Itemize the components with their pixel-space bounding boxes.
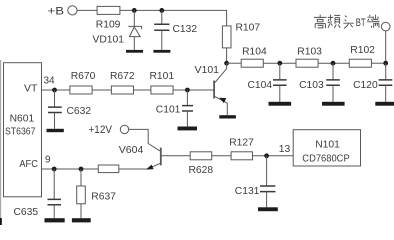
wire BT terminal down to rail — [385, 31, 387, 63]
svg-text:CD7680CP: CD7680CP — [302, 153, 350, 164]
ground C120 — [375, 102, 394, 106]
wire C104 lead top — [279, 63, 281, 80]
svg-text:V604: V604 — [119, 144, 144, 156]
svg-text:C101: C101 — [156, 105, 181, 116]
resistor R102 — [349, 59, 371, 67]
resistor R637 (vertical) — [77, 186, 86, 204]
wire C131 lead bottom — [266, 192, 268, 208]
wire C103 lead bottom — [332, 85, 334, 102]
junction dot C101 tap — [185, 88, 190, 93]
junction dot C131 tap — [264, 153, 269, 158]
svg-text:R101: R101 — [150, 71, 175, 82]
wire C635 lead top — [53, 169, 55, 199]
ground C632 — [47, 129, 64, 132]
transistor V101 emitter arrow — [219, 98, 226, 103]
svg-text:R672: R672 — [110, 71, 135, 82]
wire AFC pin9 rail — [42, 168, 99, 170]
svg-text:R107: R107 — [236, 22, 261, 33]
resistor R101 — [151, 86, 173, 94]
svg-text:VT: VT — [24, 83, 38, 95]
svg-text:V101: V101 — [195, 64, 220, 76]
wire C635 lead bottom — [53, 205, 55, 218]
capacitor C635 — [48, 199, 62, 204]
svg-text:R104: R104 — [242, 46, 267, 57]
wire R637 lead top — [80, 169, 82, 186]
wire C132 lead bottom — [161, 30, 163, 50]
wire resistor to V604 emitter — [119, 168, 147, 170]
svg-text:ST6367: ST6367 — [5, 127, 36, 138]
glyph 端 — [367, 15, 379, 28]
junction dot C635 tap — [52, 167, 57, 172]
resistor R637 series (horizontal) — [98, 165, 119, 173]
resistor R672 — [111, 86, 133, 94]
diode VD101 zener cathode bar — [128, 26, 141, 29]
ground C101 — [178, 127, 198, 131]
IC N101 box — [293, 130, 360, 166]
junction dot R107/V101 collector — [224, 61, 229, 66]
IC N601 box — [4, 63, 42, 197]
junction dot C120 tap — [383, 61, 388, 66]
glyph 频 — [328, 15, 341, 28]
wire +B to R109 — [77, 9, 97, 11]
wire C131 lead top — [266, 156, 268, 186]
svg-text:R102: R102 — [350, 45, 375, 56]
ground C132 — [153, 50, 170, 53]
svg-text:C632: C632 — [67, 106, 92, 117]
diode VD101 anode triangle — [129, 27, 140, 37]
transistor V604 base bar — [160, 148, 162, 166]
capacitor C632 — [48, 107, 62, 112]
junction dot C632 tap — [52, 88, 57, 93]
junction dot C132 tap — [159, 8, 164, 13]
wire R102 to BT node — [371, 62, 385, 64]
wire R672 to R101 — [134, 89, 151, 91]
junction dot C103 tap — [331, 61, 336, 66]
wire VD101 lead bottom — [133, 37, 135, 50]
wire C120 lead top — [385, 63, 387, 80]
label 高频头BT端 (hand-drawn glyphs) — [314, 15, 354, 29]
resistor R670 — [70, 86, 92, 94]
wire VD101 lead top — [133, 10, 135, 26]
transistor V101 base bar — [213, 81, 215, 99]
wire R637 lead bottom — [80, 204, 82, 218]
transistor V604 emitter arrow — [146, 165, 154, 170]
wire C101 lead bottom — [186, 111, 188, 127]
svg-text:C131: C131 — [235, 186, 260, 197]
wire C104 lead bottom — [279, 85, 281, 102]
svg-text:VD101: VD101 — [93, 35, 125, 46]
svg-text:34: 34 — [44, 76, 56, 87]
svg-text:+12V: +12V — [89, 124, 113, 136]
page edge line — [0, 60, 2, 225]
svg-text:C635: C635 — [14, 207, 39, 218]
svg-text:R103: R103 — [297, 46, 322, 57]
svg-text:9: 9 — [45, 155, 51, 166]
svg-text:AFC: AFC — [19, 159, 38, 170]
ground VD101 — [126, 50, 143, 53]
capacitor C131 — [260, 186, 275, 192]
wire C120 lead bottom — [385, 85, 387, 102]
terminal circle +12V — [120, 125, 128, 133]
ground C103 — [322, 102, 345, 106]
wire C632 lead bottom — [54, 113, 56, 129]
junction dot R637 tap — [79, 167, 84, 172]
svg-text:N601: N601 — [10, 114, 35, 125]
wire pin34 to R670 — [42, 89, 70, 91]
resistor R127 — [231, 152, 252, 160]
resistor R104 — [241, 59, 263, 67]
wire R109 to corner and down to R107 — [120, 10, 227, 26]
transistor V604 base wire to R628 — [162, 155, 191, 157]
wire R104 to R103 — [263, 62, 296, 64]
wire C103 lead top — [332, 63, 334, 80]
svg-text:C132: C132 — [173, 24, 198, 35]
wire rail junction to R104 — [227, 62, 242, 64]
svg-text:C104: C104 — [248, 80, 273, 91]
capacitor C120 — [379, 80, 393, 85]
ground C131 — [258, 207, 278, 211]
svg-text:R127: R127 — [229, 137, 254, 148]
wire R103 to R102 — [318, 62, 349, 64]
wire R670 to R672 — [92, 89, 111, 91]
svg-text:R637: R637 — [91, 191, 116, 202]
ground C635 — [45, 218, 65, 222]
wire C101 lead top — [186, 90, 188, 106]
glyph 高 — [314, 15, 326, 29]
transistor V604 emitter — [147, 163, 161, 169]
svg-text:C120: C120 — [353, 80, 378, 91]
resistor R107 — [222, 26, 231, 48]
wire C632 lead top — [54, 90, 56, 107]
ground C104 — [269, 102, 292, 106]
glyph 头 — [343, 16, 354, 29]
ground V101 emitter — [219, 115, 236, 118]
ground R637 — [72, 218, 91, 222]
terminal circle +B — [68, 6, 77, 15]
resistor R109 — [97, 6, 120, 14]
svg-text:13: 13 — [279, 144, 291, 155]
wire R101 to V101 base — [173, 89, 213, 91]
wire R107 to rail junction — [226, 48, 228, 63]
junction dot C104 tap — [277, 61, 282, 66]
svg-text:N101: N101 — [315, 139, 340, 150]
svg-text:C103: C103 — [299, 80, 324, 91]
wire R628 to R127 — [212, 155, 231, 157]
capacitor C103 — [326, 80, 340, 85]
svg-text:R628: R628 — [189, 165, 214, 176]
page edge mark — [0, 218, 2, 225]
capacitor C104 — [273, 80, 287, 85]
svg-text:R670: R670 — [71, 71, 96, 82]
transistor V101 emitter — [215, 96, 228, 115]
capacitor C132 — [154, 24, 169, 30]
wire R127 to N101 pin 13 — [253, 155, 294, 157]
wire +12V to V604 collector — [129, 129, 160, 151]
junction dot VD101 tap — [132, 8, 137, 13]
transistor V101 collector — [215, 63, 227, 82]
svg-text:BT: BT — [356, 17, 366, 29]
svg-text:+B: +B — [48, 6, 65, 18]
resistor R103 — [296, 59, 318, 67]
terminal circle BT端 — [381, 22, 390, 31]
resistor R628 — [190, 152, 212, 160]
wire C132 lead top — [161, 10, 163, 24]
svg-text:R109: R109 — [96, 19, 121, 30]
capacitor C101 — [182, 106, 193, 111]
